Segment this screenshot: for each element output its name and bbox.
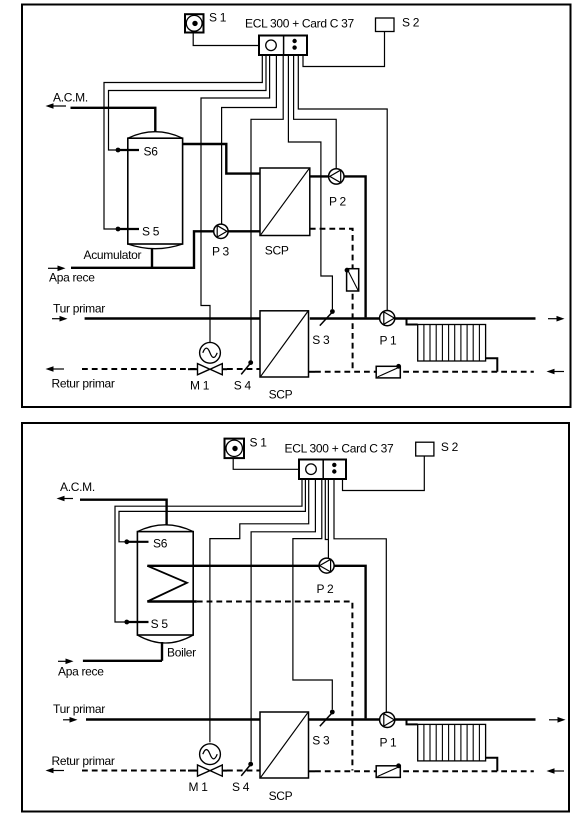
Apa rece inlet arrow [48,266,95,285]
svg-text:A.C.M.: A.C.M. [53,91,88,105]
wire ECL pin1 to S5 panel2 [115,479,302,622]
wire ECL pin5 to S3 panel2 [293,479,332,710]
sensor S6 node panel2 [124,536,167,550]
Tur primar inlet arrow [52,302,105,322]
svg-text:Tur primar: Tur primar [53,702,105,716]
svg-text:Apa rece: Apa rece [49,271,95,285]
wire ECL pin9 to S2 panel2 [343,456,425,491]
pipe Tur primar left panel2 [86,718,260,720]
accumulator tank [84,132,183,262]
Apa rece inlet arrow panel2 [58,659,104,679]
pipe SCP return stub panel2 [309,770,316,772]
pump P1 panel2 [380,712,398,749]
svg-text:S 2: S 2 [402,16,420,30]
heat exchanger SCP1 [260,168,310,258]
svg-text:S 2: S 2 [441,440,459,454]
dashed pipe M1 to SCP panel2 [227,770,260,772]
pipe radiator return drop [486,358,498,372]
svg-text:A.C.M.: A.C.M. [60,480,95,494]
svg-text:Tur primar: Tur primar [53,302,105,316]
sensor S3 [312,309,335,347]
boiler coil [147,566,187,602]
dashed pipe Retur primar right [315,371,534,373]
check valve on return panel2 [376,763,401,777]
dashed pipe Retur primar right panel2 [315,770,534,772]
wire ECL pin7 to P2 panel2 [327,479,329,558]
pipe SCP2 return stub [309,371,316,373]
sensor S1 panel2 [225,436,268,459]
Tur outlet arrow [548,316,565,322]
pipe tank to SCP1 [183,144,260,174]
wire S1 to ECL panel2 [233,458,298,469]
PANEL1 [22,5,571,408]
radiator panel2 [418,724,486,761]
svg-text:P 2: P 2 [329,195,347,209]
svg-text:S6: S6 [144,145,159,159]
panel 2 frame [22,423,569,812]
wire ECL pin3 to M1 panel2 [210,479,309,742]
svg-text:S 1: S 1 [250,436,268,450]
pipe Apa rece panel2 [83,660,162,662]
sensor S6 node [116,145,159,159]
sensor S4 [234,360,253,392]
svg-text:Retur primar: Retur primar [52,377,115,391]
svg-text:Retur primar: Retur primar [52,754,115,768]
pipe coil return solid part panel2 [147,600,197,602]
svg-text:P 2: P 2 [317,582,335,596]
wire ECL pin8 to P1 panel2 [334,479,386,712]
wire ECL pin6 to S3 [288,55,332,309]
pipe Tur primar right panel2 [309,718,536,720]
heat exchanger SCP2 [260,311,309,402]
svg-text:P 1: P 1 [380,735,398,749]
pipe A.C.M. from boiler top panel2 [80,500,167,525]
pump P1 [380,311,398,348]
Tur outlet arrow panel2 [549,717,566,723]
dashed pipe Retur primar left [82,368,198,370]
sensor S5 node [116,224,160,238]
pump P2 [329,169,347,209]
svg-text:SCP: SCP [265,244,289,258]
pipe radiator return drop panel2 [486,758,498,772]
wire ECL pin3 to M1 [201,55,270,342]
Retur outlet arrow panel2 [547,768,565,774]
check valve on return [376,364,401,378]
wire S1 to ECL [193,33,258,46]
wire ECL pin5 to S4 [251,55,283,361]
pipe radiator feed [407,319,418,325]
wire ECL pin2 to S6 [109,55,267,150]
svg-text:M 1: M 1 [190,379,210,393]
svg-text:ECL 300 + Card C 37: ECL 300 + Card C 37 [285,442,395,456]
dashed pipe Retur primar left panel2 [82,770,198,772]
boiler bottom stub panel2 [161,642,163,661]
Retur outlet arrow [547,369,565,375]
svg-text:Acumulator: Acumulator [84,248,142,262]
valve M1 panel2 [188,744,227,794]
Retur primar arrow panel2 [46,754,115,774]
pipe Tur primar right [310,317,536,319]
pipe Apa rece to P3 line [71,231,260,267]
pipe radiator feed panel2 [407,720,418,725]
A.C.M. outlet arrow panel2 [57,480,95,501]
wire ECL pin4 to P3 [222,55,277,224]
dashed pipe M1 to SCP2 [227,368,260,370]
svg-text:P 1: P 1 [380,334,398,348]
dashed pipe coil return panel2 [197,602,353,771]
svg-text:S 4: S 4 [234,379,252,393]
wire ECL pin4 to S4 panel2 [251,479,315,762]
boiler vessel [137,525,196,660]
wire ECL pin1 to S5 [104,55,262,229]
wire ECL pin9 to S2 [303,32,385,67]
pump P2 panel2 [317,558,335,596]
wire ECL pin8 to P1 [298,55,387,311]
svg-text:S 3: S 3 [312,333,330,347]
svg-text:S6: S6 [153,536,168,550]
svg-text:Boiler: Boiler [167,645,196,659]
pipe tank bottom stub [151,248,153,268]
wire ECL pin7 to P2 [294,55,337,169]
wire ECL pin6 stub panel2 [325,479,328,540]
sensor S4 panel2 [232,762,253,794]
controller U1 ECL 300 + Card C 37 [245,17,355,56]
sensor S2 panel2 [416,440,459,456]
svg-text:S 4: S 4 [232,780,250,794]
panel 1 frame [22,5,571,408]
PANEL2 [22,423,569,812]
svg-text:SCP: SCP [269,388,293,402]
Tur primar inlet arrow panel2 [53,702,105,723]
pipe Tur primar left [85,317,260,319]
svg-text:M 1: M 1 [189,780,209,794]
valve M1 [188,342,227,392]
svg-text:S 5: S 5 [142,224,160,238]
pipe coil supply through P2 panel2 [147,566,365,719]
pressure regulator on dashed riser [345,268,359,291]
svg-text:S 5: S 5 [151,617,169,631]
pipe A.C.M. from tank top [71,108,156,132]
svg-text:ECL 300 + Card C 37: ECL 300 + Card C 37 [245,17,355,31]
Retur primar arrow [46,366,115,390]
svg-text:P 3: P 3 [212,244,230,258]
heat exchanger SCP panel2 [260,712,309,803]
sensor S1 [185,11,227,33]
pipe SCP1 to P2 to Tur [310,176,366,317]
A.C.M. outlet arrow [46,91,88,109]
dashed pipe SCP1 return [310,229,353,372]
sensor S3 panel2 [312,710,334,748]
wire ECL pin2 to S6 panel2 [119,479,305,542]
sensor S5 node panel2 [124,617,168,631]
sensor S2 [376,16,420,32]
controller U2 ECL 300 + Card C 37 [285,442,395,480]
radiator [418,325,486,362]
pump P3 [212,224,230,258]
svg-text:SCP: SCP [269,789,293,803]
svg-text:S 3: S 3 [312,734,330,748]
svg-text:Apa rece: Apa rece [58,665,104,679]
svg-text:S 1: S 1 [209,11,227,25]
